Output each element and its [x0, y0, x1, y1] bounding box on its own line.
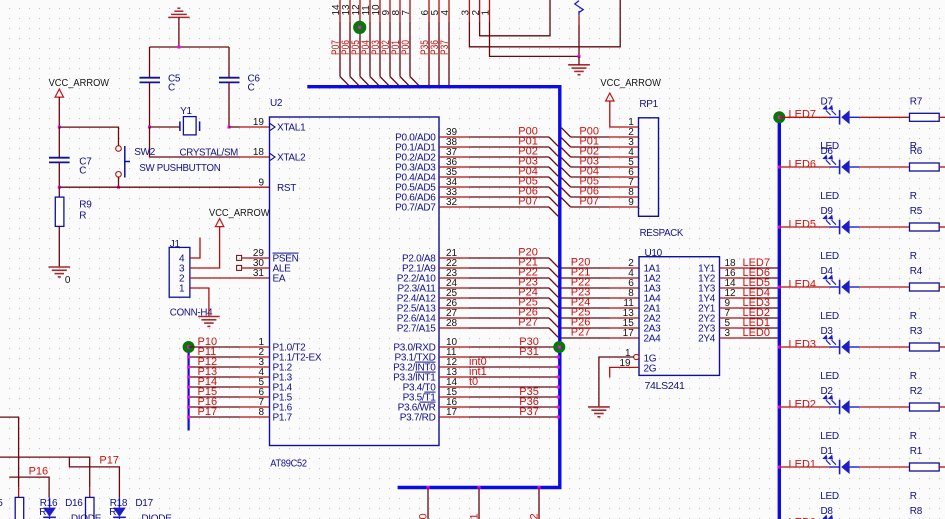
node P1.6 junction: [187, 406, 190, 409]
ground (J1): [198, 317, 220, 327]
node P3.4 bus junction: [557, 386, 560, 389]
wire resistor R4 to edge: [939, 286, 945, 288]
wire header pin 7 vertical: [409, 0, 411, 22]
ground (left, 0): [48, 267, 70, 277]
wire 2G stub: [610, 367, 639, 377]
wire bus to U10 pin row 5: [561, 317, 609, 319]
bus entry left P20: [549, 258, 558, 267]
node P10 green dot: [183, 341, 195, 353]
node LED0 bus junction: [778, 337, 781, 340]
wire P2.6 row: [439, 317, 469, 319]
svg-text:LED: LED: [820, 251, 839, 262]
svg-text:U2: U2: [270, 98, 283, 109]
wire junction to ground: [578, 56, 580, 64]
wire RST row to U2 pin 9: [59, 186, 239, 188]
svg-text:D7: D7: [821, 97, 834, 108]
wire bus to led D6: [779, 166, 829, 168]
wire U10 1Y/2Y row 2 to bus: [720, 287, 750, 289]
wire bus entry P04: [370, 77, 380, 87]
led D6: [824, 156, 860, 175]
vcc arrow symbol left: [55, 89, 63, 97]
node P1.2 junction: [187, 366, 190, 369]
svg-text:LED: LED: [820, 311, 839, 322]
bus exit right P01: [561, 138, 570, 147]
svg-text:R9: R9: [79, 200, 92, 211]
svg-text:EA: EA: [273, 274, 286, 285]
svg-text:D6: D6: [821, 146, 834, 157]
capacitor C7: [49, 158, 70, 163]
wire header pin 1 route: [489, 0, 491, 22]
bus entry left P27: [549, 328, 558, 337]
svg-text:7: 7: [401, 10, 412, 16]
wire J1 pin4 stub up: [190, 238, 200, 259]
wire C6 to crystal-right node: [228, 82, 230, 127]
wire bus to RP1 pin 3: [571, 146, 609, 148]
switch SW2 pushbutton: [116, 146, 122, 152]
node LED5 bus junction: [778, 287, 781, 290]
svg-text:P37: P37: [519, 406, 539, 418]
resistor (clipped, top right): [575, 1, 583, 13]
svg-text:LED: LED: [820, 431, 839, 442]
wire ALE stub: [242, 267, 270, 269]
wire P3.1 row: [439, 356, 469, 358]
node P30 green dot: [553, 341, 565, 353]
bus main (top/right/bottom of U2): [307, 87, 560, 488]
node P3.3 bus junction: [557, 376, 560, 379]
bus entry left P00: [549, 137, 558, 146]
node LED4 bus junction: [778, 297, 781, 300]
wire P3.2 row: [439, 366, 469, 368]
svg-text:P17: P17: [99, 455, 119, 467]
wire bus to led D9: [779, 226, 829, 228]
svg-text:LED1: LED1: [789, 458, 817, 470]
bus entry left P23: [549, 288, 558, 297]
node P04 green dot: [353, 21, 366, 34]
wire C7 top: [58, 127, 60, 157]
resistor R2: [910, 403, 940, 411]
wire U10 1Y/2Y row 4 to bus: [720, 307, 750, 309]
svg-text:P16: P16: [29, 465, 49, 477]
vcc arrow symbol middle: [215, 219, 223, 227]
wire left net to R15 resistor: [0, 417, 19, 487]
node bottom bus junction P21: [478, 486, 481, 489]
svg-text:VCC_ARROW: VCC_ARROW: [209, 208, 270, 219]
wire P0.3 row: [439, 166, 469, 168]
resistor R5: [910, 223, 940, 231]
wire P2.5 row: [439, 307, 469, 309]
wire resistor pin: [578, 11, 580, 16]
wire crystal-left to XTAL2 corner: [150, 127, 240, 157]
node SW2/RST junction: [117, 186, 120, 189]
svg-text:2Y4: 2Y4: [698, 334, 716, 345]
node LED bus junction: [778, 226, 781, 229]
svg-text:LED3: LED3: [789, 338, 817, 350]
svg-text:R: R: [910, 311, 917, 322]
svg-text:P07: P07: [518, 196, 538, 208]
node pull junction: [578, 55, 581, 58]
wire P3.5 row: [439, 396, 469, 398]
svg-text:D2: D2: [821, 386, 834, 397]
svg-text:2G: 2G: [644, 364, 657, 375]
node bottom bus junction P20: [427, 486, 430, 489]
svg-text:R: R: [109, 507, 116, 518]
wire bus entry P05: [360, 77, 370, 87]
wire P0.6 row: [439, 196, 469, 198]
wire bus to U10 pin row 2: [561, 287, 609, 289]
bus entry left P04: [549, 177, 558, 186]
svg-text:LED0: LED0: [742, 327, 770, 339]
svg-text:1: 1: [179, 283, 185, 294]
wire P16 branch: [9, 477, 49, 498]
wire C5 to crystal-left node: [149, 82, 151, 127]
wire vcc to RP1 pin1: [610, 101, 639, 127]
bus entry left P03: [549, 167, 558, 176]
wire bus to U10 pin row 6: [561, 327, 609, 329]
wire P2.7 row: [439, 327, 469, 329]
resistor R1: [910, 463, 940, 471]
bus entry left P25: [549, 308, 558, 317]
svg-text:18: 18: [253, 147, 265, 158]
bus entry left P07: [549, 207, 558, 216]
wire P1.0 row: [189, 346, 240, 348]
svg-text:t0: t0: [469, 376, 478, 388]
diode D17: [118, 498, 120, 508]
svg-text:19: 19: [253, 117, 265, 128]
svg-text:17: 17: [623, 328, 635, 339]
led D7: [824, 106, 860, 125]
svg-text:D9: D9: [821, 206, 834, 217]
bus LED column (right): [778, 117, 781, 519]
wire P3.4 row: [439, 386, 469, 388]
wire P1.3 row: [189, 376, 240, 378]
svg-text:SW2: SW2: [134, 147, 156, 158]
wire P0.7 row: [439, 206, 469, 208]
svg-text:R5: R5: [910, 206, 923, 217]
svg-text:P17: P17: [198, 406, 218, 418]
wire header pin 2 route: [479, 0, 481, 22]
svg-text:P31: P31: [519, 346, 539, 358]
led D9: [824, 216, 860, 235]
svg-text:R6: R6: [910, 146, 923, 157]
wire crystal top rail: [150, 46, 230, 48]
wire bus to U10 pin row 4: [561, 307, 609, 309]
bus entry left P22: [549, 278, 558, 287]
wire 1G to ground: [599, 357, 634, 407]
wire led to resistor R6: [860, 166, 910, 168]
wire header pin 8 vertical: [399, 0, 401, 22]
bus exit right P07: [561, 198, 570, 207]
wire bus to U10 pin row 7: [561, 337, 609, 339]
bus exit right P04: [561, 168, 570, 177]
svg-text:DIODE: DIODE: [141, 513, 172, 519]
led D3: [824, 336, 860, 355]
U2 xtal input markers: [270, 124, 275, 161]
ground (top, inverted earth): [168, 8, 189, 17]
wire vcc down to rst node: [58, 97, 60, 127]
resistor R3: [910, 343, 940, 351]
node P3.7 bus junction: [557, 416, 560, 419]
node P1.1 junction: [187, 356, 190, 359]
resistor R7: [910, 113, 940, 121]
resistor R15 (clipped left): [15, 497, 24, 519]
node LED bus junction: [778, 346, 781, 349]
node P37 bus junction: [448, 85, 451, 88]
svg-text:P22: P22: [529, 513, 541, 519]
wire bus entry P00: [410, 77, 420, 87]
wire bus to RP1 pin 2: [571, 136, 609, 138]
wire P0.4 row: [439, 176, 469, 178]
svg-text:LED6: LED6: [789, 158, 817, 170]
node P36 bus junction: [438, 85, 441, 88]
wire header pin 12 vertical: [359, 0, 361, 22]
wire crystal row left: [150, 126, 180, 128]
wire P2.0 row: [439, 257, 469, 259]
ground (top right): [568, 65, 590, 75]
wire bus to U10 pin row 1: [561, 277, 609, 279]
wire ground stem to junction: [178, 17, 180, 47]
svg-text:XTAL1: XTAL1: [277, 123, 306, 134]
wire resistor R5 to edge: [939, 226, 945, 228]
led D4: [824, 276, 860, 295]
led D2: [824, 396, 860, 415]
wire J1 pin3 to VCC arrow: [190, 227, 220, 268]
wire U10 1Y/2Y row 7 to bus: [720, 337, 750, 339]
node P3.6 bus junction: [557, 406, 560, 409]
wire P0.0 row: [439, 136, 469, 138]
node P3.5 bus junction: [557, 396, 560, 399]
node LED7 green dot: [773, 111, 785, 123]
svg-text:CRYSTAL/SM: CRYSTAL/SM: [180, 148, 239, 159]
node crystal-left junction: [148, 126, 151, 129]
node LED6 bus junction: [778, 277, 781, 280]
svg-text:4: 4: [440, 10, 451, 16]
svg-text:LED2: LED2: [789, 398, 817, 410]
svg-text:RP1: RP1: [639, 99, 658, 110]
node P1.3 junction: [187, 376, 190, 379]
resistor R17: [86, 497, 95, 519]
svg-text:74LS241: 74LS241: [645, 381, 686, 392]
wire header pin 4 vertical: [448, 0, 450, 22]
svg-text:2A4: 2A4: [644, 334, 662, 345]
wire bus to RP1 pin 9: [571, 206, 609, 208]
svg-text:R: R: [910, 191, 917, 202]
wire R9 to ground: [58, 226, 60, 267]
svg-text:P37: P37: [439, 40, 451, 55]
wire header pin 5 vertical: [438, 0, 440, 22]
node LED bus junction: [778, 166, 781, 169]
svg-text:31: 31: [253, 268, 265, 279]
diode D16: [49, 498, 51, 508]
node C7/RST junction: [58, 186, 61, 189]
svg-text:C: C: [79, 166, 86, 177]
resistor R9: [55, 197, 64, 226]
node P1.7 junction: [187, 416, 190, 419]
svg-text:R1: R1: [910, 446, 923, 457]
svg-text:P2.7/A15: P2.7/A15: [397, 324, 436, 335]
wire P1 vertical blue line: [188, 346, 190, 431]
capacitor C6: [219, 78, 240, 83]
wire P2.2 row: [439, 277, 469, 279]
wire bus to led D2: [779, 406, 829, 408]
wire P3.3 row: [439, 376, 469, 378]
svg-text:VCC_ARROW: VCC_ARROW: [49, 78, 110, 89]
bus entry left P02: [549, 157, 558, 166]
wire header pin 14 vertical: [339, 0, 341, 22]
svg-text:C: C: [248, 83, 255, 94]
svg-text:0: 0: [65, 275, 71, 286]
svg-text:P20: P20: [418, 513, 430, 519]
wire C6 branch vertical: [228, 47, 230, 77]
wire led to resistor R7: [860, 116, 910, 118]
svg-text:D3: D3: [821, 326, 834, 337]
bus exit right P02: [561, 148, 570, 157]
bus entry left P24: [549, 298, 558, 307]
node vcc/C7 junction: [58, 126, 61, 129]
wire P2.1 row: [439, 267, 469, 269]
svg-text:R2: R2: [910, 386, 923, 397]
node LED7 bus junction: [778, 267, 781, 270]
svg-text:P07: P07: [579, 196, 599, 208]
wire P3.0 row: [439, 346, 469, 348]
node P1.4 junction: [187, 386, 190, 389]
crystal Y1: [180, 117, 200, 135]
wire bus to RP1 pin 6: [571, 176, 609, 178]
bus entry left P21: [549, 268, 558, 277]
wire P2.3 row: [439, 287, 469, 289]
node LED3 bus junction: [778, 307, 781, 310]
node P3.2 bus junction: [557, 366, 560, 369]
wire P17 branch: [69, 457, 119, 498]
svg-text:R: R: [910, 371, 917, 382]
wire U10 1Y/2Y row 6 to bus: [720, 327, 750, 329]
wire P0.5 row: [439, 186, 469, 188]
wire led to resistor R1: [860, 466, 910, 468]
wire P1.7 row: [189, 416, 240, 418]
led D1: [824, 456, 860, 475]
wire bus entry P02: [390, 77, 400, 87]
svg-text:D4: D4: [821, 266, 834, 277]
bus exit right P00: [561, 128, 570, 137]
wire header pin 6 vertical: [428, 0, 430, 22]
wire bus entry P07: [340, 77, 350, 87]
led D8 arrows (clipped): [824, 516, 833, 519]
svg-text:VCC_ARROW: VCC_ARROW: [600, 78, 661, 89]
wire resistor R6 to edge: [939, 166, 945, 168]
wire U10 1Y/2Y row 0 to bus: [720, 267, 750, 269]
wire drop P22: [538, 488, 540, 519]
wire U10 1Y/2Y row 5 to bus: [720, 317, 750, 319]
svg-text:RESPACK: RESPACK: [640, 228, 684, 239]
resistor R6: [910, 163, 940, 171]
svg-text:R: R: [910, 251, 917, 262]
svg-text:D1: D1: [821, 446, 834, 457]
svg-text:P27: P27: [571, 327, 591, 339]
bus exit right P06: [561, 188, 570, 197]
node P1.5 junction: [187, 396, 190, 399]
node LED bus junction: [778, 286, 781, 289]
wire drop P21: [478, 488, 480, 519]
wire bus to led D4: [779, 286, 829, 288]
wire led to resistor R4: [860, 286, 910, 288]
wire led to resistor R5: [860, 226, 910, 228]
svg-text:RST: RST: [277, 183, 296, 194]
wire P1.5 row: [189, 396, 240, 398]
svg-text:LED: LED: [820, 191, 839, 202]
bus entry left P26: [549, 318, 558, 327]
svg-text:P00: P00: [400, 40, 412, 55]
wire bus to RP1 pin 7: [571, 186, 609, 188]
bus exit right P05: [561, 178, 570, 187]
ground (U10): [588, 407, 610, 417]
svg-text:R: R: [910, 431, 917, 442]
wire bus to led D3: [779, 346, 829, 348]
wire SW2 bottom to RST row: [118, 177, 120, 187]
node LED bus junction: [778, 466, 781, 469]
no-connect square ALE: [237, 265, 242, 270]
wire resistor R2 to edge: [939, 406, 945, 408]
svg-text:AT89C52: AT89C52: [270, 458, 307, 469]
resistor R4: [910, 283, 940, 291]
node crystal-top junction: [177, 46, 180, 49]
wire P0.2 row: [439, 156, 469, 158]
svg-text:LED7: LED7: [789, 109, 817, 121]
wire J1 pin1 to ground: [190, 288, 209, 317]
wire bus to U10 pin row 3: [561, 297, 609, 299]
svg-text:P21: P21: [469, 513, 481, 519]
node LED bus junction: [778, 406, 781, 409]
svg-text:1: 1: [628, 117, 634, 128]
U10 1G bubble: [634, 354, 639, 359]
wire led to resistor R3: [860, 346, 910, 348]
wire bus entry P01: [400, 77, 410, 87]
svg-text:R8: R8: [910, 506, 923, 517]
wire bus to RP1 pin 8: [571, 196, 609, 198]
node LED1 bus junction: [778, 327, 781, 330]
wire P1.4 row: [189, 386, 240, 388]
svg-text:D16: D16: [65, 498, 83, 509]
wire resistor R7 to edge: [939, 116, 945, 118]
wire P3.7 row: [439, 416, 469, 418]
svg-text:R: R: [79, 211, 86, 222]
svg-text:Y1: Y1: [180, 106, 192, 117]
wire U10 1Y/2Y row 1 to bus: [720, 277, 750, 279]
svg-text:P3.7/RD: P3.7/RD: [400, 413, 436, 424]
svg-text:R: R: [910, 491, 917, 502]
svg-text:LED: LED: [820, 371, 839, 382]
svg-text:J1: J1: [170, 239, 181, 250]
wire RST node down to R9: [58, 187, 60, 197]
bus entry left P05: [549, 187, 558, 196]
svg-text:R4: R4: [910, 266, 923, 277]
wire left net to R17 resistor: [0, 457, 90, 487]
svg-text:P0.7/AD7: P0.7/AD7: [395, 203, 436, 214]
wire P3.6 row: [439, 406, 469, 408]
svg-text:D17: D17: [135, 498, 153, 509]
wire led to resistor R2: [860, 406, 910, 408]
wire bus to RP1 pin 5: [571, 166, 609, 168]
capacitor C5: [140, 78, 161, 83]
wire P1.2 row: [189, 366, 240, 368]
no-connect square PSEN: [237, 255, 242, 260]
svg-text:C: C: [168, 83, 175, 94]
wire header pin 10 vertical: [379, 0, 381, 22]
node crystal-right junction: [228, 126, 231, 129]
wire J1 pin2 to EA pin 31: [190, 277, 270, 279]
svg-text:R7: R7: [910, 97, 923, 108]
wire PSEN stub: [242, 257, 270, 259]
svg-text:R3: R3: [910, 326, 923, 337]
wire resistor to junction: [578, 25, 580, 56]
